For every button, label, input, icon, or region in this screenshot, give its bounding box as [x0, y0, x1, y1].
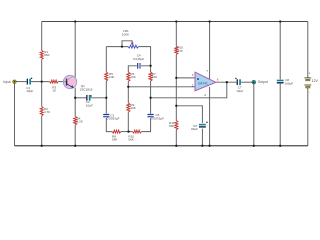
wire Q1 emitter down — [74, 88, 76, 117]
wire VR1 loop right — [139, 47, 151, 66]
resistor R5 — [105, 72, 108, 81]
wire R11 to ground rail — [175, 130, 177, 146]
capacitor C6 — [199, 124, 206, 126]
svg-text:0.0033µF: 0.0033µF — [151, 116, 164, 120]
svg-text:56K: 56K — [44, 53, 49, 57]
wire non-inverting input line — [176, 77, 195, 79]
svg-text:2.2K: 2.2K — [77, 120, 83, 124]
wire U1 pin4 to ground — [209, 87, 211, 146]
resistor R4 — [74, 116, 77, 125]
junction bottom rail pin4 — [208, 145, 210, 147]
svg-text:-: - — [309, 91, 310, 95]
svg-text:0.0033µF: 0.0033µF — [107, 117, 120, 121]
wire right branch middle — [150, 81, 152, 114]
wire C7 to output node — [241, 81, 252, 83]
junction bias node — [175, 105, 177, 107]
svg-text:6: 6 — [217, 78, 219, 82]
svg-text:4.7K: 4.7K — [44, 110, 50, 114]
battery B1 12V — [304, 77, 311, 79]
svg-text:10K: 10K — [152, 75, 157, 79]
wire right edge battery branch — [307, 22, 309, 146]
capacitor C2 — [86, 95, 87, 101]
svg-text:4: 4 — [204, 93, 206, 97]
output node — [252, 80, 256, 84]
wire output node to ground rail — [253, 84, 255, 146]
wire VR1 wiper — [122, 41, 132, 47]
svg-text:10K: 10K — [109, 75, 114, 79]
junction bottom rail R4 — [74, 145, 76, 147]
wire bias node to C6 — [176, 106, 202, 123]
svg-text:47K: 47K — [178, 49, 183, 53]
wire Q1 collector to rail — [74, 22, 76, 78]
junction inverting tap — [127, 86, 129, 88]
wire emitter node to C2 — [75, 97, 86, 99]
potentiometer VR1 — [128, 45, 139, 48]
junction feedback tap — [149, 97, 151, 99]
svg-text:10µF: 10µF — [236, 89, 243, 93]
wire U1 output — [216, 81, 237, 83]
junction pin3 bias — [175, 77, 177, 79]
svg-text:10µF: 10µF — [26, 89, 33, 93]
svg-text:+: + — [309, 72, 311, 76]
wire R4 to ground rail — [74, 125, 76, 146]
wire top supply rail — [42, 21, 308, 23]
resistor R10 bias — [175, 46, 178, 54]
wire R1 branch upper — [41, 22, 43, 51]
resistor R9 — [127, 103, 130, 112]
resistor R2 — [40, 107, 43, 116]
junction bottom tee — [127, 130, 129, 132]
wire bias branch middle — [175, 54, 177, 120]
junction C4 right — [149, 65, 151, 67]
svg-text:12V: 12V — [312, 79, 319, 83]
junction output — [226, 81, 228, 83]
svg-text:7: 7 — [206, 69, 208, 73]
wire inverting input line — [128, 86, 195, 88]
wire bottom ground rail — [15, 145, 308, 147]
svg-text:3: 3 — [192, 73, 194, 77]
junction bottom rail output — [253, 145, 255, 147]
wire C4 loop right — [141, 66, 151, 72]
op-amp U1 UA741 — [195, 72, 216, 91]
wire VR1 loop left — [106, 47, 128, 72]
svg-text:100µF: 100µF — [285, 81, 294, 85]
svg-text:56K: 56K — [169, 124, 174, 128]
svg-text:10K: 10K — [130, 106, 135, 110]
wire R3 to Q1 base — [58, 81, 64, 83]
junction bottom rail C8 — [279, 145, 281, 147]
wire left branch middle — [105, 81, 107, 114]
svg-text:33µF: 33µF — [191, 127, 198, 131]
junction top rail pin7 — [208, 20, 210, 22]
resistor R3 — [50, 80, 59, 83]
wire input to C1 — [16, 81, 26, 83]
junction bottom rail C6 — [201, 145, 203, 147]
svg-text:10µF: 10µF — [86, 104, 93, 108]
wire bias branch upper — [175, 22, 177, 47]
resistor R1 — [40, 50, 43, 59]
wire input node to ground rail — [14, 84, 16, 146]
resistor R7 — [149, 72, 152, 81]
wire middle branch R6-R9 — [127, 81, 129, 103]
junction C2 left branch — [105, 97, 107, 99]
resistor R8 — [112, 130, 121, 133]
junction bottom rail R2 — [41, 145, 43, 147]
capacitor C5 — [148, 114, 154, 115]
svg-text:56K: 56K — [112, 138, 117, 142]
resistor R10 bottom — [133, 130, 142, 133]
wire bottom tee middle — [121, 131, 133, 133]
node A junction — [41, 80, 43, 82]
input node — [13, 80, 17, 84]
resistor R6 — [127, 72, 130, 81]
wire node A to R2 — [41, 82, 43, 107]
junction bottom rail R11 — [175, 145, 177, 147]
svg-text:56K: 56K — [128, 138, 133, 142]
svg-text:0.015µF: 0.015µF — [133, 57, 144, 61]
wire R1 to node A — [41, 59, 43, 81]
capacitor C4 — [137, 63, 138, 69]
svg-text:UA741: UA741 — [198, 81, 208, 85]
wire C2 to left branch — [90, 97, 106, 99]
wire U1 pin7 to rail — [209, 22, 211, 80]
wire C8 to ground rail — [279, 84, 281, 146]
capacitor C7 — [237, 79, 238, 85]
junction VR1 wiper — [121, 45, 123, 47]
junction emitter node — [74, 97, 76, 99]
wire R2 to ground rail — [41, 116, 43, 146]
capacitor C1 — [27, 79, 28, 85]
transistor Q1 2SC1815 — [63, 75, 76, 88]
capacitor C3 — [103, 114, 109, 115]
wire C6 to ground rail — [201, 129, 203, 146]
capacitor C8 — [277, 80, 284, 82]
svg-text:100K: 100K — [122, 33, 129, 37]
svg-text:2SC1815: 2SC1815 — [80, 87, 93, 91]
wire right branch lower — [141, 118, 150, 132]
wire C1 to node A — [31, 81, 50, 83]
svg-text:10K: 10K — [130, 75, 135, 79]
wire C8 branch upper — [279, 22, 281, 80]
wire C4 loop left — [128, 66, 137, 72]
wire middle branch lower — [127, 112, 129, 131]
wire feedback — [151, 82, 227, 98]
junction top rail collector — [74, 20, 76, 22]
junction top rail C8 — [279, 20, 281, 22]
svg-text:Input: Input — [3, 80, 10, 84]
resistor R11 — [175, 121, 178, 130]
svg-text:1K: 1K — [52, 89, 56, 93]
svg-text:Output: Output — [258, 80, 268, 84]
junction top rail bias — [175, 20, 177, 22]
wire left branch lower — [106, 118, 112, 132]
